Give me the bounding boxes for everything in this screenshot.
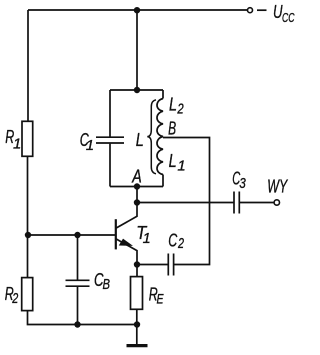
svg-text:C: C	[168, 231, 178, 251]
svg-text:1: 1	[177, 157, 185, 174]
svg-text:E: E	[157, 290, 164, 306]
svg-text:B: B	[103, 277, 111, 293]
svg-text:L: L	[136, 130, 144, 150]
svg-text:A: A	[132, 167, 142, 187]
svg-text:L: L	[169, 151, 177, 171]
svg-text:L: L	[169, 94, 177, 114]
svg-text:WY: WY	[267, 177, 288, 197]
svg-text:2: 2	[177, 101, 185, 118]
svg-text:3: 3	[239, 175, 246, 192]
svg-text:1: 1	[143, 231, 151, 247]
svg-text:1: 1	[13, 136, 21, 153]
svg-text:CC: CC	[282, 11, 295, 25]
svg-text:2: 2	[177, 235, 184, 252]
svg-text:1: 1	[86, 137, 94, 154]
svg-text:2: 2	[11, 290, 18, 307]
svg-text:B: B	[168, 119, 176, 139]
